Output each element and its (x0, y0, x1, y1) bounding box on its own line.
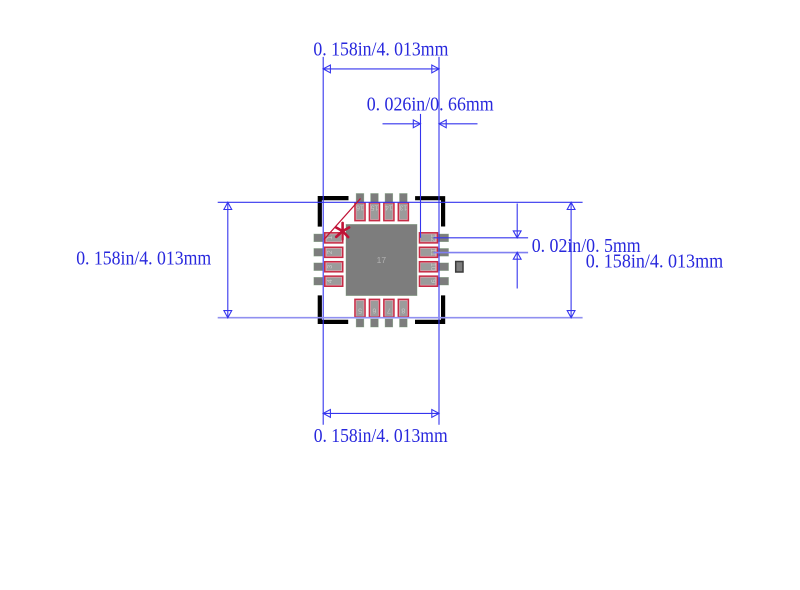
pad 8 (398, 299, 408, 327)
svg-text:14: 14 (385, 204, 393, 211)
pad 1 (314, 233, 343, 243)
pad 7 (384, 299, 394, 327)
package outline corner bracket bottom-right (417, 298, 443, 322)
svg-text:15: 15 (370, 204, 378, 211)
dimension 0.026in/0.66mm (383, 120, 478, 128)
pad 15 (369, 194, 379, 221)
svg-text:8: 8 (401, 306, 405, 313)
svg-text:13: 13 (399, 204, 407, 211)
pad 5 (355, 299, 365, 327)
svg-text:17: 17 (377, 255, 387, 265)
wire extension line H3 y=237.8 (434, 237, 529, 239)
package outline corner bracket bottom-left (320, 298, 346, 322)
package outline corner bracket top-left (320, 198, 347, 224)
svg-text:4: 4 (327, 279, 334, 283)
svg-text:6: 6 (372, 306, 376, 313)
pin-1 marker asterisk (336, 223, 349, 240)
svg-text:10: 10 (429, 263, 436, 271)
pad 3 (314, 262, 343, 272)
package outline corner bracket top-right (417, 198, 443, 224)
pad 10 (419, 262, 448, 272)
wire extension line V2 x=439 (438, 57, 440, 425)
wire extension line H1 y=202.3 (218, 201, 583, 203)
pad 12 (419, 233, 448, 243)
pad 6 (369, 299, 379, 327)
dimension right 0.158in/4.013mm (567, 202, 575, 317)
dimension 0.02in/0.5mm (513, 204, 521, 289)
svg-text:0. 026in/0. 66mm: 0. 026in/0. 66mm (367, 94, 494, 116)
pad 14 (384, 194, 394, 221)
svg-text:0. 02in/0. 5mm: 0. 02in/0. 5mm (532, 235, 641, 257)
via square right side (456, 262, 463, 273)
pad 13 (398, 194, 408, 221)
svg-text:3: 3 (327, 265, 334, 269)
pad 4 (314, 276, 343, 286)
svg-text:9: 9 (429, 279, 436, 283)
pin-1 marker diagonal line (324, 199, 361, 240)
svg-text:1: 1 (327, 236, 334, 240)
svg-text:7: 7 (387, 306, 391, 313)
pad 16 (355, 194, 365, 221)
pad 9 (419, 276, 448, 286)
svg-text:0. 158in/4. 013mm: 0. 158in/4. 013mm (314, 425, 448, 447)
wire extension line H4 y=252.3 (434, 252, 529, 254)
wire extension line V3 x=420.5 (420, 114, 422, 238)
dimension bottom 0.158in/4.013mm (323, 410, 439, 418)
svg-text:2: 2 (327, 250, 334, 254)
wire extension line V1 x=323 (322, 57, 324, 425)
dimension top 0.158in/4.013mm (323, 65, 439, 73)
exposed pad 17 (346, 224, 417, 295)
svg-text:0. 158in/4. 013mm: 0. 158in/4. 013mm (313, 38, 448, 60)
wire extension line H2 y=317.8 (218, 317, 583, 319)
svg-text:0. 158in/4. 013mm: 0. 158in/4. 013mm (76, 248, 211, 270)
pad 11 (419, 247, 448, 257)
svg-text:5: 5 (358, 306, 362, 313)
dimension left 0.158in/4.013mm (224, 202, 232, 317)
svg-text:16: 16 (356, 204, 364, 211)
pad 2 (314, 247, 343, 257)
